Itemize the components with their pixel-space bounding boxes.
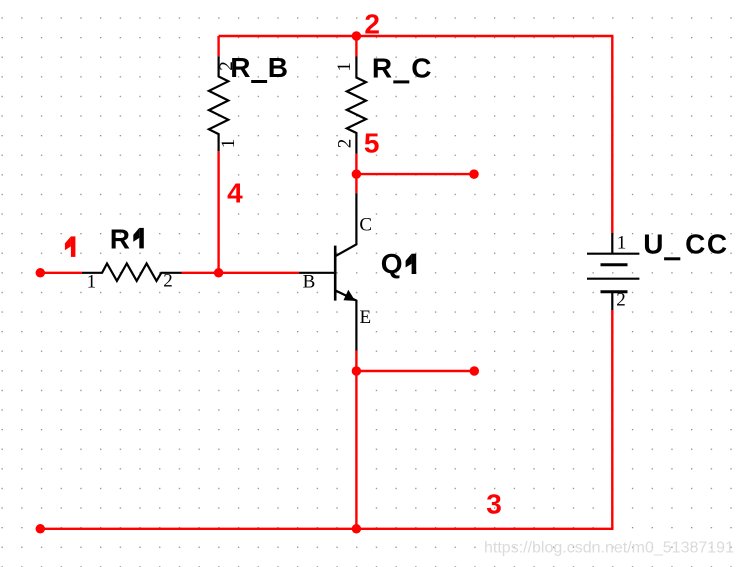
svg-text:https://blog.csdn.net/m0_51387: https://blog.csdn.net/m0_51387191 — [484, 540, 734, 557]
svg-text:Q: Q — [381, 248, 403, 279]
svg-text:1: 1 — [334, 62, 355, 72]
svg-text:R: R — [110, 223, 130, 254]
svg-text:2: 2 — [616, 290, 626, 311]
svg-text:U: U — [643, 228, 663, 259]
svg-text:2: 2 — [334, 139, 355, 149]
svg-text:CC: CC — [685, 228, 728, 259]
svg-text:B: B — [268, 52, 288, 83]
svg-text:C: C — [359, 214, 372, 235]
svg-text:5: 5 — [364, 127, 380, 158]
svg-text:R: R — [372, 52, 392, 83]
svg-text:1: 1 — [87, 271, 97, 292]
svg-text:2: 2 — [364, 9, 380, 40]
svg-text:E: E — [360, 307, 372, 328]
svg-text:2: 2 — [163, 271, 173, 292]
svg-text:4: 4 — [227, 178, 243, 209]
svg-text:C: C — [411, 52, 431, 83]
svg-text:1: 1 — [218, 139, 239, 149]
svg-text:B: B — [303, 271, 316, 292]
svg-text:3: 3 — [486, 488, 502, 519]
svg-text:1: 1 — [617, 233, 627, 254]
svg-text:2: 2 — [216, 61, 237, 71]
